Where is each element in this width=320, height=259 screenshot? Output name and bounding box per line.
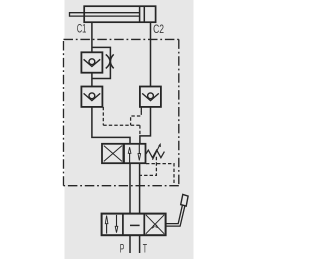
pilot line from V3: [140, 107, 142, 112]
directional valve DV body: [102, 214, 166, 236]
DV divider right: [143, 214, 145, 236]
DV left square up arrow: [106, 224, 108, 234]
wire between check boxes: [91, 73, 93, 87]
valve U1 divider: [122, 144, 124, 163]
check valve box V1 (top left, with throttle): [81, 52, 102, 72]
adjustment arrow U1: [153, 145, 160, 160]
wire B line to directional valve: [139, 163, 141, 213]
check valve ball V2: [89, 93, 95, 99]
pilot line from V2: [103, 107, 141, 136]
check valve seat V1: [84, 59, 101, 66]
pilot line down to main: [139, 125, 141, 136]
svg-text:C1: C1: [77, 23, 87, 36]
wire C1 port line: [91, 22, 93, 52]
piston rod: [70, 13, 140, 16]
DV right square crossed arrows: [146, 215, 164, 234]
unloading valve block U1: [102, 144, 146, 163]
check valve ball V1: [89, 59, 95, 65]
wire left main line down to valve block: [92, 107, 130, 144]
wire right main line down to valve block: [140, 107, 151, 144]
pilot check valve box V3 (right): [140, 87, 161, 107]
svg-text:C2: C2: [153, 23, 164, 36]
relief spring U1: [146, 150, 165, 158]
wire C2 port line: [150, 22, 152, 86]
DV divider left: [122, 214, 124, 236]
check valve ball V3: [148, 93, 154, 99]
throttle restrictor: [106, 54, 110, 68]
drain line from valve body to boundary: [146, 164, 174, 186]
cylinder body: [84, 6, 155, 22]
pilot check valve box V2 (left): [81, 87, 102, 107]
enclosure dash-dot boundary: [64, 39, 179, 185]
svg-text:T: T: [143, 243, 147, 256]
check valve seat V3: [142, 93, 159, 100]
svg-text:P: P: [120, 243, 125, 256]
DV centre bar P-T: [130, 224, 140, 226]
valve U1 up arrow: [129, 153, 131, 163]
DV left square down arrow: [116, 215, 118, 226]
lever handle: [166, 205, 183, 223]
valve U1 crossed position: [104, 146, 122, 162]
check valve seat V2: [84, 93, 101, 100]
piston: [139, 6, 141, 22]
valve U1 down arrow: [138, 144, 140, 153]
gray background panel: [65, 0, 194, 259]
wire throttle bypass loop: [92, 47, 111, 78]
wire T line below valve: [139, 235, 141, 253]
lever grip: [181, 194, 188, 206]
wire A line to directional valve: [129, 163, 131, 213]
wire P line below valve: [129, 235, 131, 253]
drain line from spring: [140, 157, 174, 186]
